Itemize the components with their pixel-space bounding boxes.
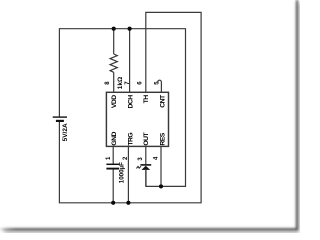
junction node rail-DCH (128, 27, 132, 31)
battery BT1 plates (53, 117, 67, 121)
svg-text:GND: GND (111, 132, 118, 146)
svg-text:8: 8 (105, 81, 111, 85)
svg-text:1: 1 (106, 156, 112, 160)
svg-text:TRG: TRG (127, 133, 134, 146)
svg-text:RES: RES (160, 132, 167, 145)
wire pin3 OUT (145, 146, 147, 164)
wire pin2 TRG (127, 146, 129, 202)
wire pin4 RES (160, 146, 162, 186)
wire pin8 top (113, 29, 115, 54)
junction node rail-R1 (112, 27, 116, 31)
svg-text:DCH: DCH (127, 95, 134, 109)
capacitor C1 plates (106, 164, 119, 168)
junction node gnd-C1 (111, 201, 115, 205)
svg-text:TH: TH (143, 95, 150, 104)
svg-text:5V/2A: 5V/2A (62, 123, 69, 141)
wire pin1 GND lower (112, 169, 114, 203)
svg-text:1000µF: 1000µF (119, 162, 126, 183)
junction node RES-loop (159, 184, 163, 188)
wire pin5 CNT stub (158, 80, 162, 92)
wire pin8 bottom (113, 72, 115, 92)
junction node gnd-TRG (126, 201, 130, 205)
wire pin1 GND upper (112, 146, 114, 163)
wire pin7 DCH (129, 29, 131, 93)
resistor R1 (110, 54, 117, 72)
svg-text:OUT: OUT (143, 132, 150, 146)
svg-text:4: 4 (154, 156, 160, 160)
svg-text:CNT: CNT (160, 94, 167, 108)
svg-text:1kΩ: 1kΩ (117, 77, 124, 89)
diode LED1 (136, 165, 151, 187)
svg-text:3: 3 (138, 157, 144, 161)
wire top rail (59, 29, 185, 187)
wire outer loop TH (59, 12, 201, 202)
svg-text:6: 6 (138, 81, 144, 85)
IC U1 555 box (106, 92, 168, 146)
svg-text:VDD: VDD (111, 95, 118, 108)
